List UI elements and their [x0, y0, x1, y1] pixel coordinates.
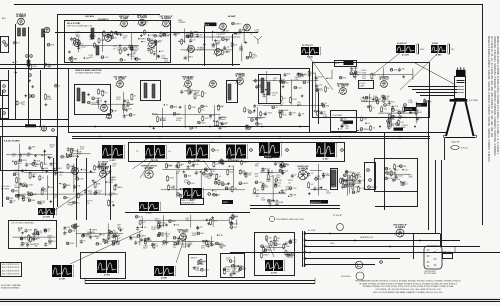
- wire: [104, 164, 106, 196]
- focus coil ellipse: [242, 0, 244, 1]
- capacitor CR274: [342, 120, 349, 125]
- resistor L244: [266, 235, 273, 242]
- svg-text:TRAP: TRAP: [359, 84, 365, 87]
- waveform photo C209: [52, 265, 74, 281]
- resistor L182: [108, 199, 115, 207]
- svg-text:250V: 250V: [116, 99, 121, 101]
- ground: [108, 170, 111, 173]
- top border line: [14, 4, 483, 6]
- node C278: [343, 174, 350, 177]
- svg-text:CONTRAST: CONTRAST: [332, 114, 343, 117]
- svg-text:.0047: .0047: [285, 246, 291, 248]
- svg-text:6: 6: [147, 46, 148, 48]
- ground: [203, 43, 206, 46]
- wire y119.5 horizontal: [0, 119, 68, 121]
- junction dot: [223, 30, 224, 31]
- capacitor V75: [102, 238, 110, 243]
- junction dot: [105, 182, 106, 183]
- ground: [206, 219, 209, 222]
- node CR33: [101, 56, 109, 59]
- svg-text:3.3K: 3.3K: [219, 235, 224, 237]
- ground: [87, 93, 90, 96]
- svg-text:120K: 120K: [292, 99, 297, 101]
- junction dot: [164, 104, 165, 105]
- capacitor T99: [20, 236, 28, 241]
- svg-text:5%: 5%: [105, 92, 108, 94]
- svg-text:AF AMP: AF AMP: [228, 15, 236, 18]
- ground: [165, 224, 168, 227]
- wire: [236, 219, 238, 225]
- resistor V272: [194, 93, 201, 100]
- svg-text:1MEG: 1MEG: [364, 129, 370, 131]
- wire vertical x53: [53, 158, 55, 218]
- svg-text:4.7K: 4.7K: [282, 114, 287, 116]
- wire left vertical x2: [2, 90, 4, 207]
- pointer wire W1: [308, 55, 333, 90]
- svg-text:2: 2: [137, 24, 138, 26]
- junction dot on bus y137: [279, 136, 281, 138]
- node C233: [384, 104, 392, 107]
- svg-text:120K: 120K: [225, 39, 230, 41]
- node C39: [32, 95, 35, 98]
- capacitor R51: [307, 172, 314, 177]
- resistor V40: [260, 111, 266, 117]
- node V196: [173, 236, 179, 239]
- ground: [89, 170, 92, 173]
- svg-text:.0047: .0047: [91, 102, 97, 104]
- resistor T58: [144, 238, 152, 245]
- resistor T150: [361, 116, 368, 122]
- wire: [348, 175, 350, 194]
- resistor C285: [377, 98, 384, 105]
- wire: [188, 44, 190, 62]
- svg-text:5: 5: [99, 110, 100, 112]
- capacitor C72: [262, 167, 271, 172]
- svg-text:4.7K: 4.7K: [205, 118, 210, 120]
- node V278: [322, 105, 330, 108]
- junction dot on bus: [341, 126, 343, 128]
- ground: [22, 197, 25, 200]
- svg-text:.0047: .0047: [88, 57, 94, 59]
- capacitor CR187: [136, 226, 143, 231]
- node L64: [398, 111, 406, 114]
- node R108: [14, 41, 21, 44]
- wire: [24, 171, 96, 173]
- wire: [361, 101, 379, 103]
- resistor T126: [205, 240, 212, 246]
- svg-text:470K: 470K: [191, 107, 196, 109]
- svg-text:.0047: .0047: [161, 222, 167, 224]
- wire vertical x110: [110, 165, 112, 220]
- node C24: [402, 182, 409, 185]
- svg-text:VHF OSC & MIXER (ALL CH): VHF OSC & MIXER (ALL CH): [67, 25, 92, 28]
- junction dot: [159, 51, 160, 52]
- coil CR168: [261, 78, 264, 93]
- capacitor V256: [25, 184, 34, 189]
- svg-text:.05: .05: [168, 151, 171, 153]
- capacitor CR238: [345, 179, 353, 184]
- resistor V83: [353, 172, 360, 178]
- resistor C261: [29, 236, 38, 243]
- svg-text:470K: 470K: [169, 178, 174, 180]
- svg-text:5%: 5%: [54, 174, 57, 176]
- node R203: [229, 159, 237, 162]
- svg-text:5%: 5%: [173, 247, 176, 249]
- resistor T268: [123, 104, 129, 111]
- ground: [253, 109, 256, 112]
- waveform photo R85: [259, 142, 282, 160]
- svg-text:6.8K: 6.8K: [33, 166, 38, 168]
- svg-text:250V: 250V: [267, 113, 272, 115]
- capacitor R184: [267, 169, 274, 174]
- nested box bottoms: [85, 280, 315, 282]
- video amp section box: [313, 63, 430, 118]
- junction dot: [41, 155, 42, 156]
- node CR149: [385, 177, 394, 180]
- resistor V293: [111, 30, 118, 36]
- node V123: [49, 240, 57, 243]
- resistor L17: [16, 177, 22, 184]
- tube 6AL5: [379, 75, 389, 87]
- node T257: [268, 199, 276, 202]
- resistor L173: [30, 64, 38, 71]
- node L49: [201, 268, 210, 271]
- node CR22: [3, 41, 6, 44]
- capacitor R288: [280, 163, 288, 168]
- capacitor V202: [254, 79, 261, 84]
- ground: [409, 111, 412, 114]
- svg-text:470K: 470K: [318, 77, 323, 79]
- capacitor CR65: [187, 165, 196, 170]
- wire: [262, 105, 324, 107]
- capacitor CR68: [322, 172, 330, 177]
- capacitor V32: [41, 167, 49, 172]
- coil R248: [331, 170, 336, 187]
- svg-text:3.3K: 3.3K: [292, 194, 297, 196]
- junction dot: [279, 192, 280, 193]
- resistor T216: [357, 186, 364, 193]
- bracket W2: [417, 43, 419, 45]
- svg-text:1MEG: 1MEG: [263, 254, 269, 256]
- node L121: [294, 86, 303, 89]
- resistor R156: [216, 173, 222, 180]
- svg-text:3.3K: 3.3K: [364, 101, 369, 103]
- junction dot: [152, 113, 153, 114]
- ground: [211, 216, 214, 219]
- svg-text:4.7K: 4.7K: [216, 195, 221, 197]
- resistor C232: [74, 37, 81, 45]
- resistor V148: [218, 179, 225, 186]
- svg-text:① 94V: ① 94V: [59, 278, 66, 281]
- junction dot: [290, 194, 291, 195]
- stromberg label + circle: [269, 216, 274, 221]
- resistor C240: [231, 42, 238, 48]
- resistor CR192: [181, 38, 187, 45]
- node CR215: [13, 173, 19, 176]
- junction dot: [297, 105, 298, 106]
- junction dot: [329, 233, 331, 235]
- svg-text:2: 2: [218, 28, 219, 30]
- capacitor V91: [301, 73, 308, 78]
- capacitor T125: [10, 199, 17, 204]
- junction dot: [202, 240, 203, 241]
- tube V26: [70, 168, 78, 175]
- node C94: [383, 97, 389, 100]
- ground: [115, 184, 118, 187]
- svg-text:① 12BY7: ① 12BY7: [338, 84, 350, 88]
- capacitor T248: [395, 175, 404, 180]
- junction dot on bus: [94, 126, 96, 128]
- node L95: [28, 193, 34, 196]
- ground: [179, 106, 182, 109]
- node CR74: [187, 182, 195, 185]
- capacitor C102: [77, 46, 86, 51]
- node R187: [316, 89, 324, 92]
- junction dot: [265, 89, 266, 90]
- resistor CR233: [232, 214, 239, 220]
- resistor L226: [262, 184, 269, 191]
- ground: [28, 79, 31, 82]
- svg-text:① 6BQ7: ① 6BQ7: [16, 14, 26, 18]
- svg-text:4: 4: [338, 93, 339, 95]
- svg-text:.0047: .0047: [204, 270, 210, 272]
- svg-text:120K: 120K: [111, 230, 116, 232]
- junction dot: [84, 57, 85, 58]
- tube 6BQ7: [16, 14, 27, 25]
- node T240: [94, 192, 102, 195]
- wire vertical x384: [384, 132, 386, 210]
- node T249: [69, 57, 77, 60]
- svg-text:WIDTH: WIDTH: [191, 258, 198, 260]
- wire: [317, 164, 319, 196]
- capacitor C38: [244, 172, 253, 177]
- junction dot: [163, 35, 164, 36]
- svg-text:H-840KU21, H-841KU21, H-842KU2: H-840KU21, H-841KU21, H-842KU21, H-843KU…: [493, 36, 495, 156]
- svg-text:6.8K: 6.8K: [64, 157, 69, 159]
- svg-text:.0047: .0047: [49, 146, 55, 148]
- node CR268: [315, 178, 323, 181]
- wire y132 horizontal: [310, 132, 448, 134]
- node T275: [197, 232, 205, 235]
- note box bottom-left: [1, 263, 22, 277]
- bold label 6U8: [205, 23, 217, 27]
- ground: [34, 154, 37, 157]
- node CR176: [424, 100, 432, 103]
- svg-text:① 3BZ6: ① 3BZ6: [183, 77, 193, 81]
- coil C189: [96, 46, 99, 55]
- wire: [144, 241, 215, 243]
- waveform photo R223: [139, 202, 161, 215]
- ground: [157, 55, 160, 58]
- CRT funnel left edge: [446, 102, 456, 136]
- svg-text:① 88V: ① 88V: [436, 54, 443, 57]
- wire y207 horizontal: [375, 206, 418, 208]
- ground: [244, 41, 247, 44]
- bold dash label near focus: [394, 128, 404, 131]
- resistor V149: [160, 31, 168, 38]
- node T18: [114, 31, 122, 34]
- svg-text:4: 4: [213, 54, 214, 56]
- resistor C111: [317, 110, 324, 116]
- node T114: [198, 121, 207, 124]
- ground: [344, 121, 347, 124]
- ground: [119, 33, 122, 36]
- resistor L75: [202, 115, 209, 122]
- wire: [77, 149, 79, 155]
- node CR186: [369, 179, 372, 182]
- node V176: [221, 160, 227, 163]
- terminal pin 6: [304, 264, 306, 266]
- wire power y246: [305, 246, 480, 248]
- resistor C248: [280, 96, 286, 102]
- capacitor V87: [283, 164, 290, 169]
- svg-text:3.3K: 3.3K: [43, 164, 48, 166]
- junction dot: [338, 128, 339, 129]
- svg-text:3.3K: 3.3K: [79, 179, 84, 181]
- capacitor L246: [44, 242, 52, 247]
- svg-text:470K: 470K: [222, 117, 227, 119]
- svg-text:2: 2: [379, 86, 380, 88]
- node CR131: [55, 84, 61, 87]
- node R16: [11, 189, 19, 192]
- node CR226: [212, 149, 220, 152]
- resistor T194: [389, 113, 396, 120]
- node L26: [184, 175, 192, 178]
- resistor R266: [155, 39, 162, 46]
- svg-text:① 87V: ① 87V: [271, 272, 278, 275]
- resistor T212: [223, 268, 230, 275]
- node R97: [105, 240, 114, 243]
- resistor C87: [390, 170, 396, 177]
- capacitor C146: [19, 182, 27, 187]
- socket wire: [443, 252, 455, 254]
- junction dot: [212, 31, 213, 32]
- wire: [185, 236, 187, 248]
- resistor T23: [35, 229, 42, 236]
- node CR74: [92, 97, 101, 100]
- ground: [281, 172, 284, 175]
- node R43: [42, 188, 48, 191]
- pointer diag 2: [140, 159, 152, 178]
- wire: [161, 108, 163, 128]
- tube 6AX4: [393, 225, 407, 237]
- ground: [48, 156, 51, 159]
- capacitor T3: [48, 63, 56, 68]
- tube V13: [105, 113, 112, 119]
- wire: [354, 67, 356, 80]
- node CR33: [255, 181, 263, 184]
- wire: [33, 229, 35, 241]
- junction dot: [180, 188, 181, 189]
- wire: [176, 171, 178, 197]
- resistor T269: [93, 42, 99, 49]
- coil T168: [228, 84, 231, 100]
- interlock symbol: [443, 254, 453, 259]
- svg-text:① 87V: ① 87V: [110, 159, 117, 162]
- svg-text:120K: 120K: [284, 110, 289, 112]
- resistor V101: [188, 88, 194, 96]
- svg-text:FOCUS: FOCUS: [461, 148, 468, 150]
- pointer diag flyback: [266, 238, 274, 257]
- capacitor CR259: [239, 29, 248, 34]
- capacitor V257: [140, 238, 150, 243]
- resistor R229: [281, 162, 289, 169]
- bold label horizontal output: [264, 154, 280, 158]
- junction dot: [167, 165, 168, 166]
- node CR33: [385, 167, 392, 170]
- ground: [112, 204, 115, 207]
- tube 6AG5: [159, 16, 173, 27]
- capacitor L272: [196, 33, 204, 38]
- svg-text:MODELS H-840K21 A-840K21, H-84: MODELS H-840K21 A-840K21, H-841K21, H-84…: [487, 36, 490, 162]
- flyback box: [255, 233, 295, 276]
- svg-text:① 6AG5: ① 6AG5: [161, 16, 171, 20]
- node R146: [112, 243, 121, 246]
- svg-text:3.3K: 3.3K: [342, 180, 347, 182]
- capacitor V252: [134, 241, 141, 246]
- svg-text:ION TRAP: ION TRAP: [469, 99, 479, 102]
- node T6: [73, 201, 81, 204]
- junction dot: [178, 41, 179, 42]
- junction dot: [59, 183, 60, 184]
- svg-text:RECOMMENDED MODELS 9T240C3, 9-: RECOMMENDED MODELS 9T240C3, 9-T240C3, 9T…: [355, 281, 461, 283]
- resistor T150: [283, 243, 292, 249]
- capacitor T231: [315, 76, 324, 81]
- capacitor T100: [187, 34, 195, 39]
- node V114: [341, 149, 344, 152]
- junction dot: [402, 169, 403, 170]
- CRT feed wires: [408, 86, 457, 88]
- wire: [290, 79, 292, 105]
- waveform photo L69: [154, 266, 176, 280]
- junction dot on bus: [379, 126, 381, 128]
- junction dot: [212, 190, 213, 191]
- capacitor C149: [274, 182, 282, 187]
- waveform photo R120: [265, 260, 285, 275]
- coil C276: [27, 60, 30, 66]
- wire bus y64.5: [0, 64, 240, 66]
- wire: [185, 36, 240, 38]
- right border line: [482, 5, 484, 226]
- svg-text:FOCUS: FOCUS: [405, 109, 413, 111]
- wire: [272, 175, 274, 200]
- node L100: [210, 173, 219, 176]
- capacitor L191: [67, 147, 75, 152]
- wire: [91, 103, 133, 105]
- node T272: [248, 127, 251, 130]
- wire: [18, 162, 20, 200]
- wire double bus y138.6: [72, 138, 430, 140]
- capacitor CR49: [189, 39, 196, 44]
- terminal box left edge 1: [1, 81, 9, 96]
- waveform photo CR293: [38, 208, 57, 219]
- wire: [71, 153, 91, 155]
- svg-text:470K: 470K: [32, 66, 37, 68]
- capacitor T234: [112, 234, 120, 239]
- node L73: [30, 55, 33, 58]
- svg-text:① 6AX4: ① 6AX4: [395, 225, 405, 229]
- node CR101: [66, 155, 74, 158]
- resistor V105: [108, 234, 115, 241]
- wire: [415, 102, 417, 124]
- waveform photo CR274: [97, 260, 119, 277]
- svg-text:HIGH VOLT: HIGH VOLT: [311, 202, 322, 204]
- capacitor L10: [173, 241, 181, 246]
- node L181: [275, 179, 283, 182]
- ground: [92, 179, 95, 182]
- wire: [382, 68, 384, 77]
- svg-text:5%: 5%: [273, 80, 276, 82]
